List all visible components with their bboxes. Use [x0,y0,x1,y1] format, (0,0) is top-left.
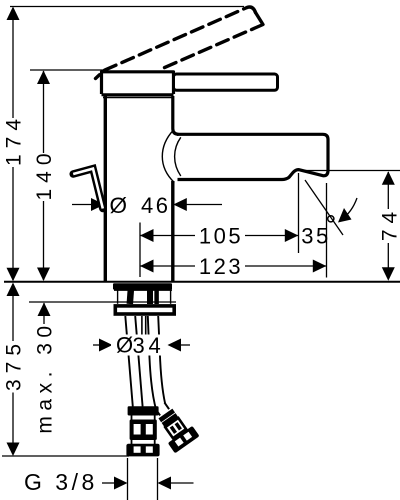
svg-text:max. 30: max. 30 [34,320,57,433]
dimension 140 [43,71,45,280]
shank inner bars [130,290,131,304]
ref line handle top (140 top) [30,69,104,71]
dimension 105 [140,235,298,237]
deck line [4,281,400,283]
dashed raised lever end edge [256,13,264,25]
spout outline [177,134,328,179]
right hose [148,316,156,410]
cap lower ring [102,93,174,96]
svg-text:105: 105 [199,224,243,249]
svg-text:3: 3 [133,333,148,358]
dashed raised cap corner [96,75,100,79]
left hose [125,316,133,407]
dashed raised lever corner [247,7,256,12]
extension line G3/8 left [127,458,129,500]
35deg leader arc [342,198,358,220]
extension line aerator x [298,173,300,253]
svg-text:74: 74 [378,206,400,241]
base plate [113,283,172,289]
dimension 123 [140,265,326,267]
dimension Ø 34 [93,344,100,346]
left hose connector [126,406,159,456]
ref line top (174 top) [10,6,244,8]
svg-text:140: 140 [33,147,56,200]
right hose connector (angled) [148,397,200,453]
shank top line [114,289,172,291]
degree symbol [328,216,334,222]
svg-text:174: 174 [3,113,26,166]
dashed raised lever lower edge [164,25,264,69]
35deg slant line [305,180,343,235]
faucet body right edge lower [171,181,174,282]
svg-text:G 3/8: G 3/8 [24,469,98,495]
dimension 74 [387,172,389,279]
extension line spout tip x [326,183,328,278]
svg-text:123: 123 [199,254,243,279]
dashed raised lever upper edge [96,7,264,78]
shank outer lines [117,290,119,304]
ref line aerator height (74 top) [297,170,400,172]
lever bar [174,74,278,90]
svg-text:375: 375 [3,338,26,391]
mounting flange [115,306,174,314]
ref line hose end (375 bottom) [2,455,129,457]
dimension max. 30 [43,303,45,324]
dimension 375 [12,284,14,454]
spout-body outer fillet arc [162,130,174,183]
ref line counter underside (max30 bottom) [29,301,176,303]
label O34 halo and text [111,335,162,356]
spout-body inner fillet arc [175,137,181,176]
dimension Ø 46 [72,204,92,206]
handle hook symbol [73,169,103,209]
extension line G3/8 right [157,458,159,500]
svg-text:Ø: Ø [116,333,133,358]
faucet body left edge [104,96,107,282]
threaded rod [141,316,143,336]
svg-text:4: 4 [149,333,164,358]
svg-text:46: 46 [141,193,170,218]
faucet handle cap [102,72,174,94]
svg-text:Ø: Ø [110,193,128,218]
svg-text:35: 35 [301,224,330,249]
faucet body right edge upper [173,96,179,134]
dimension 174 [12,8,14,280]
extension line center axis [139,223,141,278]
